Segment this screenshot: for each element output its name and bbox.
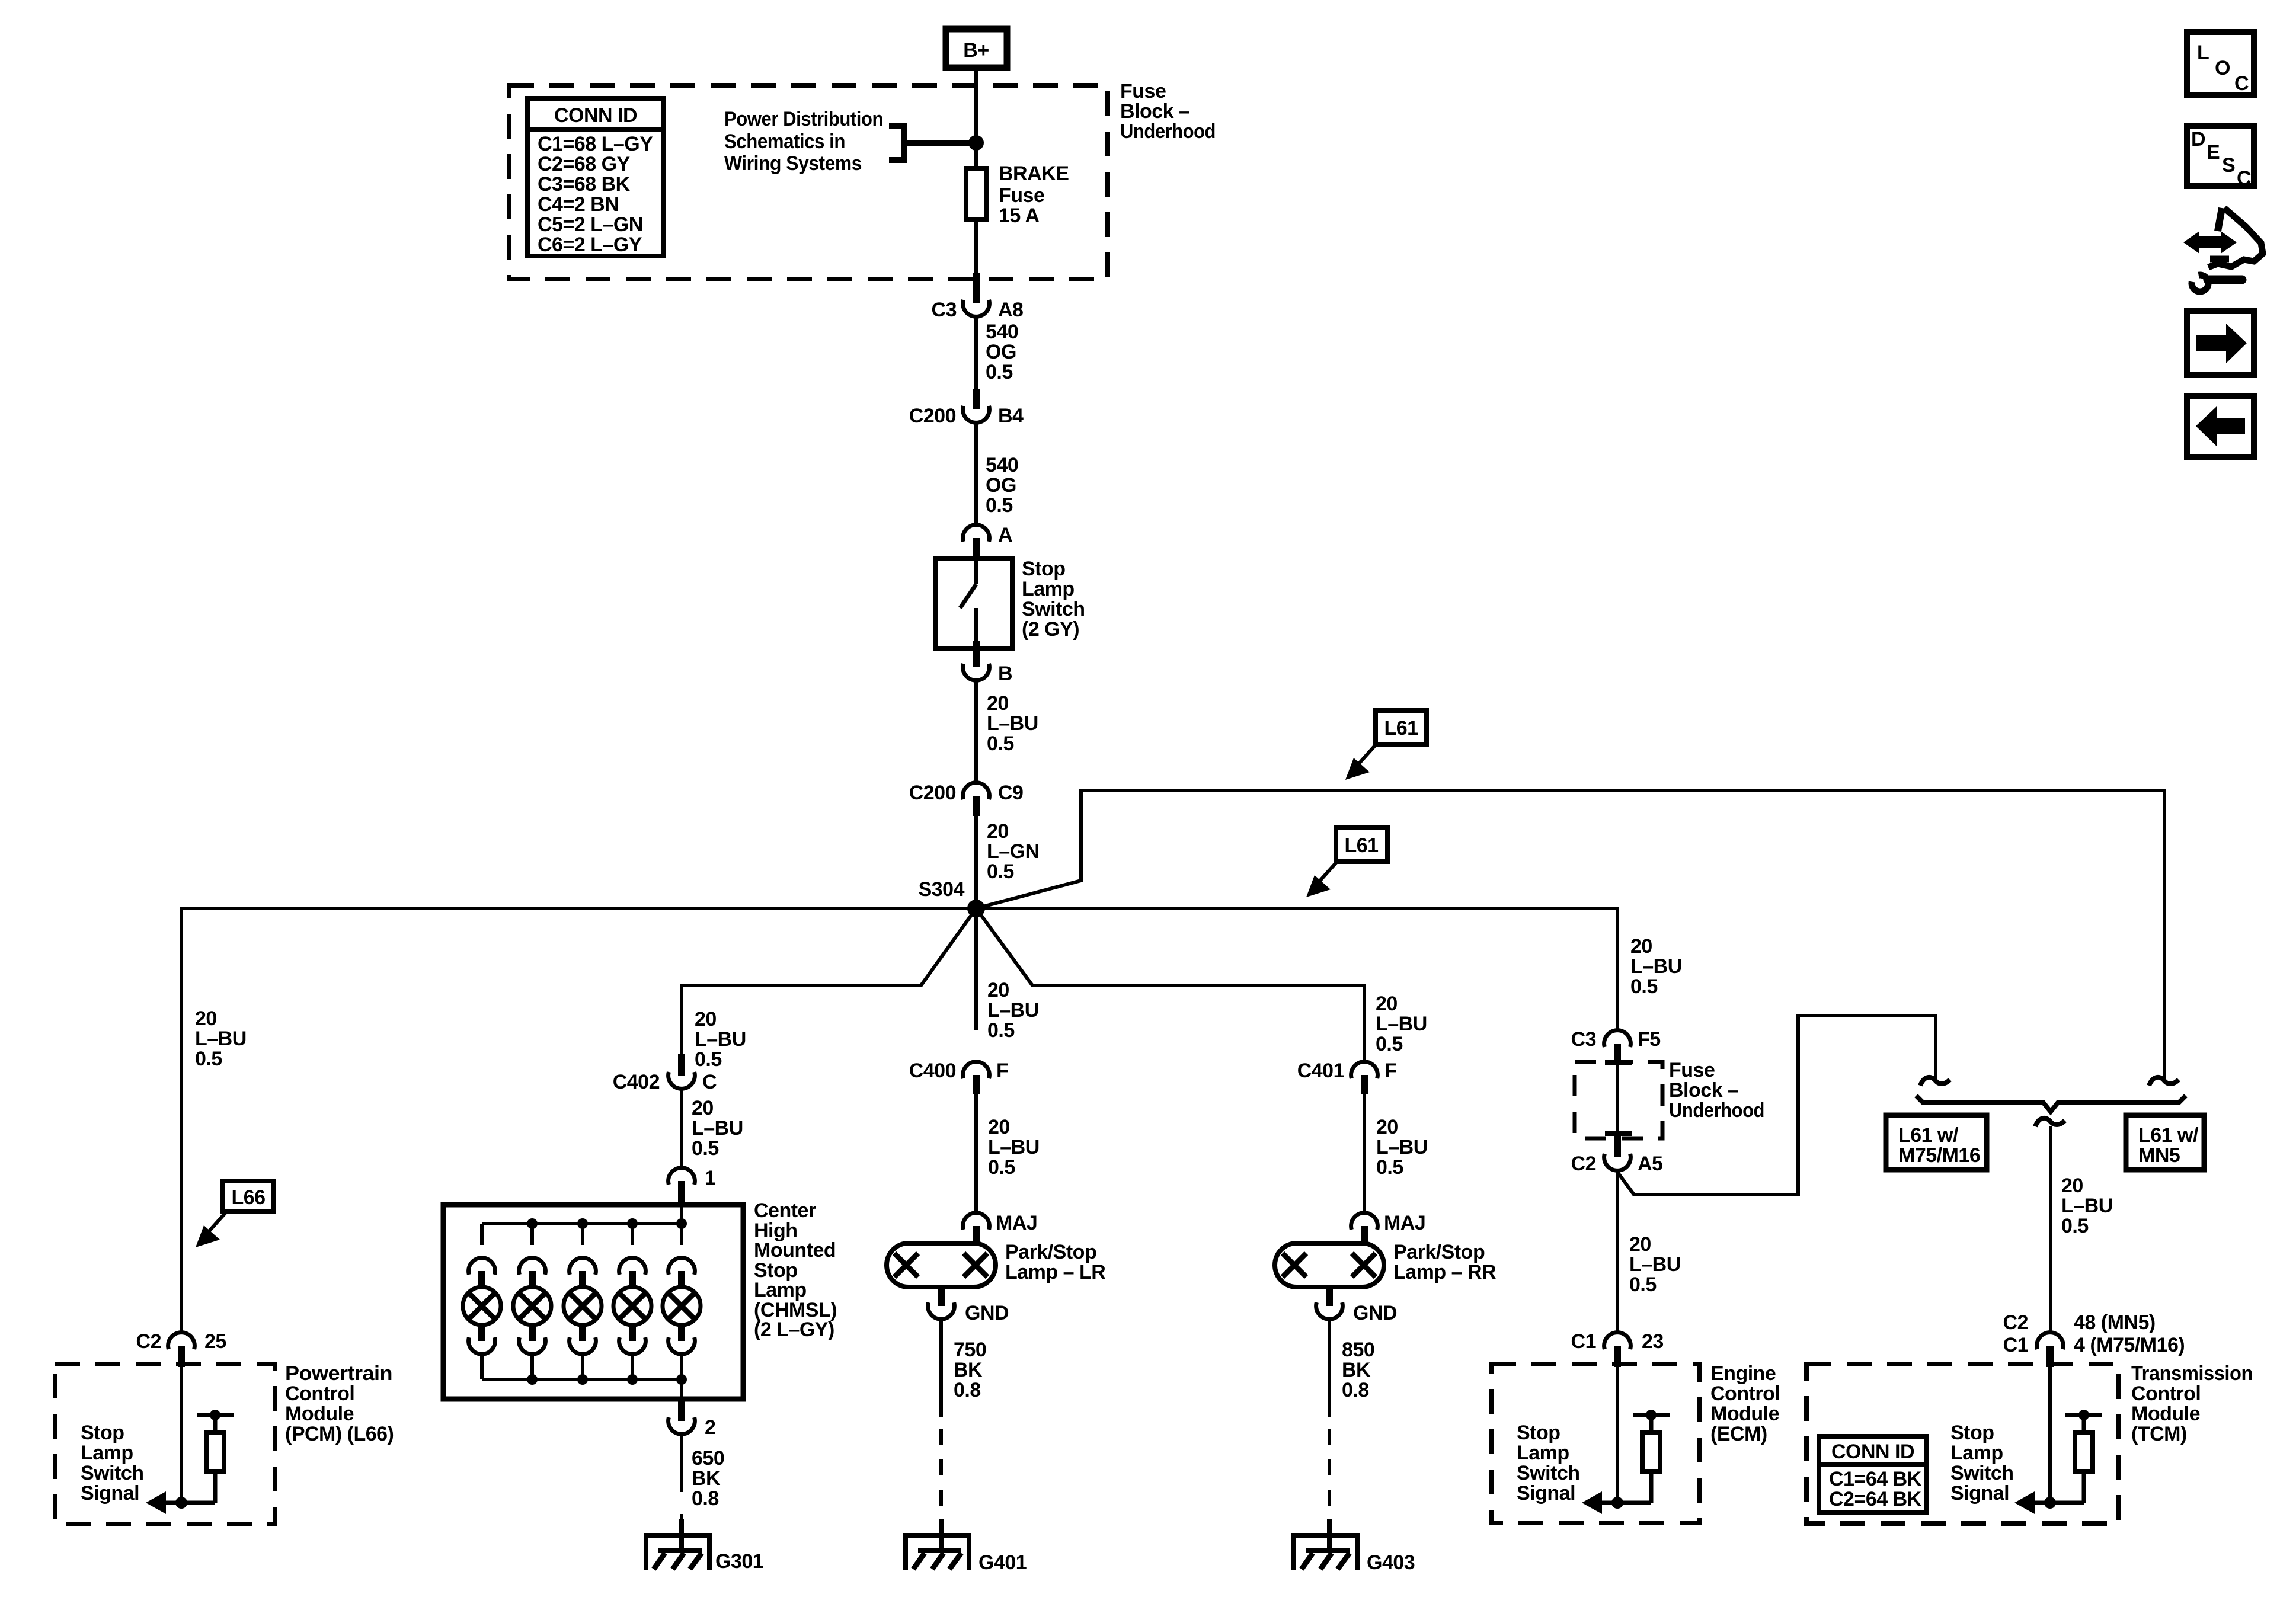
- svg-text:540: 540: [986, 454, 1018, 476]
- svg-text:C2: C2: [136, 1330, 161, 1353]
- CHMSL box: [443, 1205, 743, 1399]
- svg-text:Control: Control: [1710, 1382, 1780, 1405]
- label Engine Control Module: [1710, 1362, 1780, 1445]
- svg-text:C1: C1: [2003, 1334, 2028, 1356]
- ground wire to G403: [1328, 1319, 1331, 1417]
- svg-text:0.8: 0.8: [692, 1487, 719, 1510]
- svg-text:L61 w/: L61 w/: [1898, 1124, 1959, 1147]
- svg-text:(2 L–GY): (2 L–GY): [754, 1318, 834, 1341]
- label Transmission Control Module: [2131, 1362, 2253, 1445]
- svg-text:BK: BK: [692, 1467, 721, 1490]
- fuse block underhood dashed box (ECM fuse): [1575, 1062, 1662, 1138]
- svg-text:C2: C2: [1571, 1153, 1596, 1175]
- svg-text:S304: S304: [919, 878, 965, 901]
- fuse element bars: [1605, 1060, 1632, 1136]
- svg-text:C1=68 L–GY: C1=68 L–GY: [538, 133, 653, 155]
- svg-text:Powertrain: Powertrain: [285, 1362, 392, 1385]
- CHMSL top bus: [482, 1206, 682, 1224]
- svg-text:Lamp: Lamp: [1022, 578, 1075, 600]
- wire label 850 BK 0.8: [1342, 1339, 1374, 1401]
- CONN ID table (TCM): [1817, 1436, 1929, 1513]
- ground G403: [1291, 1519, 1415, 1574]
- svg-text:L–GN: L–GN: [987, 840, 1040, 863]
- svg-text:Center: Center: [754, 1199, 816, 1222]
- svg-text:L66: L66: [231, 1186, 265, 1209]
- svg-text:20: 20: [987, 692, 1009, 715]
- svg-text:20: 20: [987, 820, 1009, 843]
- svg-text:650: 650: [692, 1447, 724, 1470]
- svg-text:Fuse: Fuse: [1669, 1059, 1715, 1081]
- connector MAJ (RR): [1351, 1212, 1426, 1244]
- wire A5 to ECM: [1616, 1170, 1619, 1333]
- svg-text:BK: BK: [954, 1359, 983, 1381]
- wire label 540 OG 0.5: [986, 454, 1018, 517]
- svg-text:Switch: Switch: [1517, 1462, 1580, 1484]
- wire label 20 L-BU 0.5: [692, 1097, 743, 1160]
- svg-text:20: 20: [1629, 1233, 1651, 1256]
- svg-text:Lamp: Lamp: [1517, 1442, 1569, 1464]
- CHMSL bulb 5: [663, 1224, 701, 1379]
- wire label 750 BK 0.8: [954, 1339, 986, 1401]
- svg-text:(2 GY): (2 GY): [1022, 618, 1079, 641]
- wire C3 to C200: [974, 316, 978, 390]
- svg-text:F5: F5: [1638, 1028, 1661, 1051]
- connector GND (RR): [1316, 1287, 1397, 1324]
- icon electrical repair (arrow + outline + wrench): [2183, 208, 2263, 292]
- svg-text:Module: Module: [2131, 1403, 2200, 1425]
- svg-text:GND: GND: [965, 1302, 1009, 1324]
- svg-text:20: 20: [988, 1116, 1010, 1138]
- wire A5 branch to TCM option: [1617, 1016, 1936, 1195]
- icon back arrow box: [2187, 396, 2254, 457]
- svg-text:L–BU: L–BU: [1629, 1253, 1681, 1276]
- svg-text:GND: GND: [1353, 1302, 1397, 1324]
- svg-text:Signal: Signal: [1950, 1482, 2009, 1505]
- connector MAJ (LR): [963, 1212, 1038, 1244]
- svg-text:Module: Module: [285, 1403, 354, 1425]
- svg-text:Stop: Stop: [1950, 1422, 1994, 1444]
- svg-text:20: 20: [1376, 993, 1398, 1015]
- svg-text:4 (M75/M16): 4 (M75/M16): [2074, 1334, 2185, 1356]
- connector C400/F: [909, 1060, 1009, 1094]
- svg-text:0.5: 0.5: [987, 732, 1014, 755]
- wire C401 to MAJ: [1363, 1094, 1366, 1213]
- svg-text:B: B: [998, 662, 1012, 685]
- wire label 20 L-BU 0.5: [1376, 1116, 1428, 1179]
- svg-text:Signal: Signal: [81, 1482, 139, 1505]
- splice S304: [919, 878, 985, 917]
- svg-text:A5: A5: [1638, 1153, 1662, 1175]
- CHMSL bulb 1: [463, 1224, 501, 1379]
- fuse block underhood dashed box: [509, 85, 1108, 279]
- option box L61 w/ M75/M16: [1886, 1115, 1987, 1170]
- svg-text:MAJ: MAJ: [996, 1212, 1037, 1234]
- L66 tag box: [223, 1181, 274, 1212]
- svg-text:BRAKE: BRAKE: [999, 162, 1069, 185]
- label Stop Lamp Switch Signal (PCM): [81, 1422, 144, 1505]
- svg-text:C2=64 BK: C2=64 BK: [1829, 1488, 1922, 1510]
- ground wire to G401: [939, 1319, 943, 1417]
- connector C2/C1 48/4 (TCM): [2003, 1311, 2185, 1367]
- svg-text:C4=2 BN: C4=2 BN: [538, 193, 619, 216]
- svg-text:B+: B+: [963, 39, 989, 62]
- svg-text:Lamp: Lamp: [81, 1442, 133, 1464]
- ECM signal line with arrow: [1582, 1491, 1651, 1514]
- svg-text:Stop: Stop: [81, 1422, 124, 1444]
- svg-text:L61: L61: [1384, 717, 1418, 740]
- connector GND (LR): [928, 1287, 1009, 1324]
- connector C402/C: [613, 1054, 717, 1093]
- ground wire to G301: [680, 1434, 683, 1550]
- wire label 20 L-GN 0.5: [987, 820, 1040, 883]
- bus junction dots: [527, 1218, 687, 1385]
- svg-text:Underhood: Underhood: [1669, 1099, 1764, 1122]
- svg-text:Transmission: Transmission: [2131, 1362, 2253, 1385]
- svg-text:20: 20: [1630, 935, 1652, 958]
- svg-text:Module: Module: [1710, 1403, 1779, 1425]
- wire S304 left to PCM: [181, 908, 976, 1333]
- fuse BRAKE 15A: [966, 162, 1069, 227]
- svg-text:C1: C1: [1571, 1330, 1596, 1353]
- svg-text:20: 20: [987, 979, 1009, 1001]
- svg-text:L–BU: L–BU: [1630, 955, 1682, 978]
- svg-text:C3: C3: [1571, 1028, 1596, 1051]
- wire label 20 L-BU 0.5 (RR feed): [1376, 993, 1427, 1055]
- svg-text:0.5: 0.5: [1630, 975, 1658, 998]
- wire B+ to fuse: [974, 71, 978, 168]
- label Stop Lamp Switch Signal (TCM): [1950, 1422, 2014, 1505]
- wire S304 down to LR lamp: [974, 908, 978, 1030]
- park/stop lamp LR: [887, 1241, 1105, 1287]
- wire C9 to S304: [974, 816, 978, 908]
- label Powertrain Control Module: [285, 1362, 394, 1445]
- wire brace to TCM: [2049, 1126, 2052, 1333]
- svg-text:C200: C200: [909, 782, 956, 804]
- svg-text:Switch: Switch: [1022, 598, 1085, 620]
- svg-text:Fuse: Fuse: [1120, 80, 1166, 103]
- icon LOC box: [2187, 32, 2254, 95]
- svg-text:Engine: Engine: [1710, 1362, 1776, 1385]
- svg-text:0.5: 0.5: [988, 1156, 1015, 1179]
- options brace: [1916, 1096, 2186, 1112]
- svg-text:OG: OG: [986, 474, 1016, 497]
- wire label 20 L-BU 0.5: [988, 1116, 1040, 1179]
- svg-text:Power Distribution: Power Distribution: [724, 108, 883, 130]
- svg-text:25: 25: [204, 1330, 226, 1353]
- svg-text:48 (MN5): 48 (MN5): [2074, 1311, 2156, 1334]
- svg-text:0.5: 0.5: [986, 361, 1013, 383]
- svg-text:L–BU: L–BU: [692, 1117, 743, 1140]
- svg-text:540: 540: [986, 321, 1018, 343]
- CONN ID table: [525, 98, 666, 256]
- wire S304 to RR branch: [976, 908, 1364, 1062]
- svg-text:Control: Control: [285, 1382, 354, 1405]
- svg-text:20: 20: [2061, 1174, 2083, 1197]
- svg-text:C400: C400: [909, 1060, 956, 1082]
- CHMSL bulb 3: [564, 1224, 602, 1379]
- svg-text:20: 20: [692, 1097, 714, 1119]
- wire label 20 L-BU 0.5 (ECM feed): [1630, 935, 1682, 998]
- TCM internal resistor: [2065, 1410, 2102, 1503]
- wire label 20 L-BU 0.5: [987, 692, 1038, 755]
- CHMSL bulb 2: [513, 1224, 551, 1379]
- svg-text:0.5: 0.5: [695, 1048, 722, 1071]
- connector C200/C9: [909, 782, 1024, 816]
- svg-text:M75/M16: M75/M16: [1898, 1144, 1980, 1167]
- junction node on B+ feed: [968, 135, 984, 151]
- svg-text:O: O: [2215, 57, 2230, 79]
- svg-text:C2=68 GY: C2=68 GY: [538, 153, 631, 175]
- svg-text:L: L: [2197, 41, 2209, 64]
- connector C2/25: [136, 1330, 226, 1367]
- svg-text:C1=64 BK: C1=64 BK: [1829, 1468, 1922, 1490]
- svg-text:E: E: [2207, 141, 2220, 164]
- svg-text:(PCM) (L66): (PCM) (L66): [285, 1423, 394, 1445]
- svg-text:F: F: [996, 1060, 1008, 1082]
- svg-text:C: C: [2237, 167, 2251, 190]
- connector C1/23: [1571, 1330, 1664, 1367]
- svg-text:CONN ID: CONN ID: [554, 104, 637, 127]
- svg-text:(ECM): (ECM): [1710, 1423, 1767, 1445]
- svg-text:Signal: Signal: [1517, 1482, 1575, 1505]
- wire C400 to MAJ: [974, 1094, 978, 1213]
- svg-text:C2: C2: [2003, 1311, 2028, 1334]
- svg-text:(TCM): (TCM): [2131, 1423, 2187, 1445]
- svg-text:C5=2 L–GN: C5=2 L–GN: [538, 213, 643, 236]
- svg-text:G403: G403: [1367, 1551, 1415, 1574]
- svg-text:0.8: 0.8: [954, 1379, 981, 1401]
- svg-text:Wiring Systems: Wiring Systems: [724, 152, 862, 175]
- wire C200 to switch: [974, 422, 978, 525]
- wire fuse to C3: [974, 219, 978, 274]
- arrow from L61 box 1: [1345, 744, 1376, 780]
- connector B: [963, 641, 1012, 685]
- wire C402 to pin 1: [680, 1089, 683, 1168]
- connector C401/F: [1297, 1060, 1397, 1094]
- svg-text:BK: BK: [1342, 1359, 1371, 1381]
- wire label 650 BK 0.8: [692, 1447, 724, 1510]
- svg-text:Lamp – LR: Lamp – LR: [1005, 1261, 1105, 1283]
- svg-text:0.5: 0.5: [692, 1137, 719, 1160]
- label Center High Mounted Stop Lamp: [754, 1199, 837, 1341]
- svg-text:L–BU: L–BU: [1376, 1136, 1428, 1158]
- ground G401: [903, 1519, 1027, 1574]
- svg-text:C401: C401: [1297, 1060, 1344, 1082]
- svg-text:2: 2: [705, 1416, 715, 1439]
- PCM input wire: [180, 1367, 183, 1503]
- wire label 20 L-BU 0.5 (PCM feed): [195, 1007, 247, 1070]
- svg-text:C3: C3: [932, 299, 957, 321]
- svg-text:Fuse: Fuse: [999, 184, 1044, 207]
- svg-text:L61: L61: [1344, 834, 1378, 857]
- svg-text:Schematics in: Schematics in: [724, 130, 845, 153]
- arrow from L66 box: [196, 1212, 226, 1247]
- connector pin 2: [669, 1399, 716, 1439]
- svg-text:20: 20: [695, 1008, 717, 1030]
- ECM dashed box: [1491, 1364, 1700, 1523]
- icon forward arrow box: [2187, 311, 2254, 375]
- svg-text:23: 23: [1642, 1330, 1664, 1353]
- svg-text:20: 20: [1376, 1116, 1398, 1138]
- svg-text:0.5: 0.5: [986, 494, 1013, 517]
- power B+ symbol: [946, 29, 1007, 68]
- svg-text:C6=2 L–GY: C6=2 L–GY: [538, 233, 642, 256]
- TCM dashed box: [1806, 1364, 2119, 1523]
- svg-text:OG: OG: [986, 341, 1016, 363]
- TCM signal line with arrow: [2014, 1491, 2084, 1514]
- icon DESC box: [2187, 126, 2254, 190]
- svg-text:Switch: Switch: [81, 1462, 144, 1484]
- connector pin 1: [669, 1167, 716, 1206]
- wire S304 right to ECM branch: [976, 908, 1617, 1030]
- svg-text:Lamp – RR: Lamp – RR: [1393, 1261, 1496, 1283]
- stop lamp switch: [936, 558, 1085, 648]
- svg-text:Stop: Stop: [1517, 1422, 1560, 1444]
- svg-text:G301: G301: [715, 1550, 763, 1573]
- svg-text:Park/Stop: Park/Stop: [1005, 1241, 1096, 1263]
- svg-text:A8: A8: [998, 299, 1023, 321]
- PCM internal resistor: [197, 1410, 234, 1503]
- PCM dashed box: [55, 1364, 275, 1524]
- svg-text:L–BU: L–BU: [1376, 1013, 1427, 1035]
- svg-text:0.5: 0.5: [1376, 1156, 1403, 1179]
- svg-text:MN5: MN5: [2138, 1144, 2180, 1167]
- svg-text:B4: B4: [998, 405, 1024, 427]
- label Fuse Block Underhood (ECM fuse): [1669, 1059, 1764, 1122]
- ECM input wire: [1616, 1367, 1619, 1503]
- connector C3/A8: [932, 273, 1024, 321]
- park/stop lamp RR: [1275, 1241, 1496, 1287]
- svg-text:S: S: [2222, 154, 2235, 177]
- svg-text:0.8: 0.8: [1342, 1379, 1369, 1401]
- svg-text:L–BU: L–BU: [2061, 1195, 2113, 1217]
- L61 tag box 2: [1336, 828, 1387, 862]
- svg-text:L61 w/: L61 w/: [2138, 1124, 2199, 1147]
- svg-text:G401: G401: [978, 1551, 1027, 1574]
- svg-text:C200: C200: [909, 405, 956, 427]
- wire S304 to CHMSL branch: [682, 908, 976, 1054]
- svg-text:C: C: [702, 1071, 717, 1093]
- svg-text:Block –: Block –: [1669, 1079, 1738, 1102]
- PCM signal line with arrow: [146, 1491, 215, 1514]
- svg-text:MAJ: MAJ: [1384, 1212, 1425, 1234]
- svg-text:A: A: [998, 524, 1012, 546]
- connector C2/A5: [1571, 1136, 1663, 1175]
- svg-text:0.5: 0.5: [1629, 1273, 1657, 1296]
- ECM internal resistor: [1633, 1410, 1670, 1503]
- CHMSL bulb 4: [613, 1224, 651, 1379]
- svg-text:L–BU: L–BU: [695, 1028, 746, 1051]
- hook wire end M75/M16: [1920, 1077, 1950, 1086]
- L61 tag box 1: [1376, 710, 1427, 744]
- svg-text:Block –: Block –: [1120, 100, 1189, 123]
- option box L61 w/ MN5: [2126, 1115, 2204, 1170]
- svg-text:1: 1: [705, 1167, 715, 1189]
- svg-text:0.5: 0.5: [1376, 1033, 1403, 1055]
- svg-text:Underhood: Underhood: [1120, 120, 1216, 143]
- svg-text:L–BU: L–BU: [195, 1028, 247, 1050]
- wire label 20 L-BU 0.5 (TCM feed): [2061, 1174, 2113, 1237]
- wire label 20 L-BU 0.5 (ECM): [1629, 1233, 1681, 1296]
- svg-text:0.5: 0.5: [987, 860, 1014, 883]
- connector C200/B4: [909, 389, 1024, 427]
- svg-text:Lamp: Lamp: [1950, 1442, 2003, 1464]
- wire B to C200: [974, 680, 978, 783]
- svg-text:0.5: 0.5: [2061, 1215, 2089, 1237]
- svg-text:Mounted: Mounted: [754, 1239, 836, 1262]
- svg-text:Park/Stop: Park/Stop: [1393, 1241, 1485, 1263]
- svg-text:750: 750: [954, 1339, 986, 1361]
- svg-text:Control: Control: [2131, 1382, 2201, 1405]
- svg-text:C9: C9: [998, 782, 1023, 804]
- ground G301: [644, 1519, 763, 1573]
- note Power Distribution Schematics in Wiring Systems: [724, 108, 976, 175]
- svg-text:L–BU: L–BU: [987, 999, 1039, 1022]
- CHMSL bottom bus: [482, 1379, 682, 1399]
- arrow from L61 box 2: [1306, 862, 1337, 897]
- svg-text:C402: C402: [613, 1071, 660, 1093]
- svg-text:Stop: Stop: [1022, 558, 1066, 580]
- svg-text:15 A: 15 A: [999, 204, 1040, 227]
- connector A: [963, 524, 1012, 559]
- svg-text:850: 850: [1342, 1339, 1374, 1361]
- svg-text:Lamp: Lamp: [754, 1279, 807, 1301]
- svg-text:20: 20: [195, 1007, 217, 1030]
- svg-text:L–BU: L–BU: [988, 1136, 1040, 1158]
- connector C3/F5: [1571, 1028, 1661, 1065]
- wire S304 up-right to L61 feed: [976, 790, 2164, 1082]
- svg-text:0.5: 0.5: [987, 1019, 1015, 1042]
- TCM input wire: [2048, 1367, 2052, 1503]
- wire label 20 L-BU 0.5 (LR feed): [987, 979, 1039, 1042]
- label Stop Lamp Switch Signal (ECM): [1517, 1422, 1580, 1505]
- svg-text:CONN ID: CONN ID: [1831, 1441, 1914, 1463]
- svg-text:L–BU: L–BU: [987, 712, 1038, 735]
- hook below brace: [2035, 1118, 2065, 1126]
- wire label 20 L-BU 0.5 (CHMSL feed): [695, 1008, 746, 1071]
- svg-text:F: F: [1384, 1060, 1396, 1082]
- hook wire end MN5: [2149, 1077, 2179, 1086]
- svg-text:Switch: Switch: [1950, 1462, 2014, 1484]
- svg-text:C: C: [2234, 72, 2249, 95]
- svg-text:0.5: 0.5: [195, 1048, 222, 1070]
- svg-text:D: D: [2191, 128, 2205, 151]
- svg-text:C3=68 BK: C3=68 BK: [538, 173, 631, 196]
- wire label 540 OG 0.5: [986, 321, 1018, 383]
